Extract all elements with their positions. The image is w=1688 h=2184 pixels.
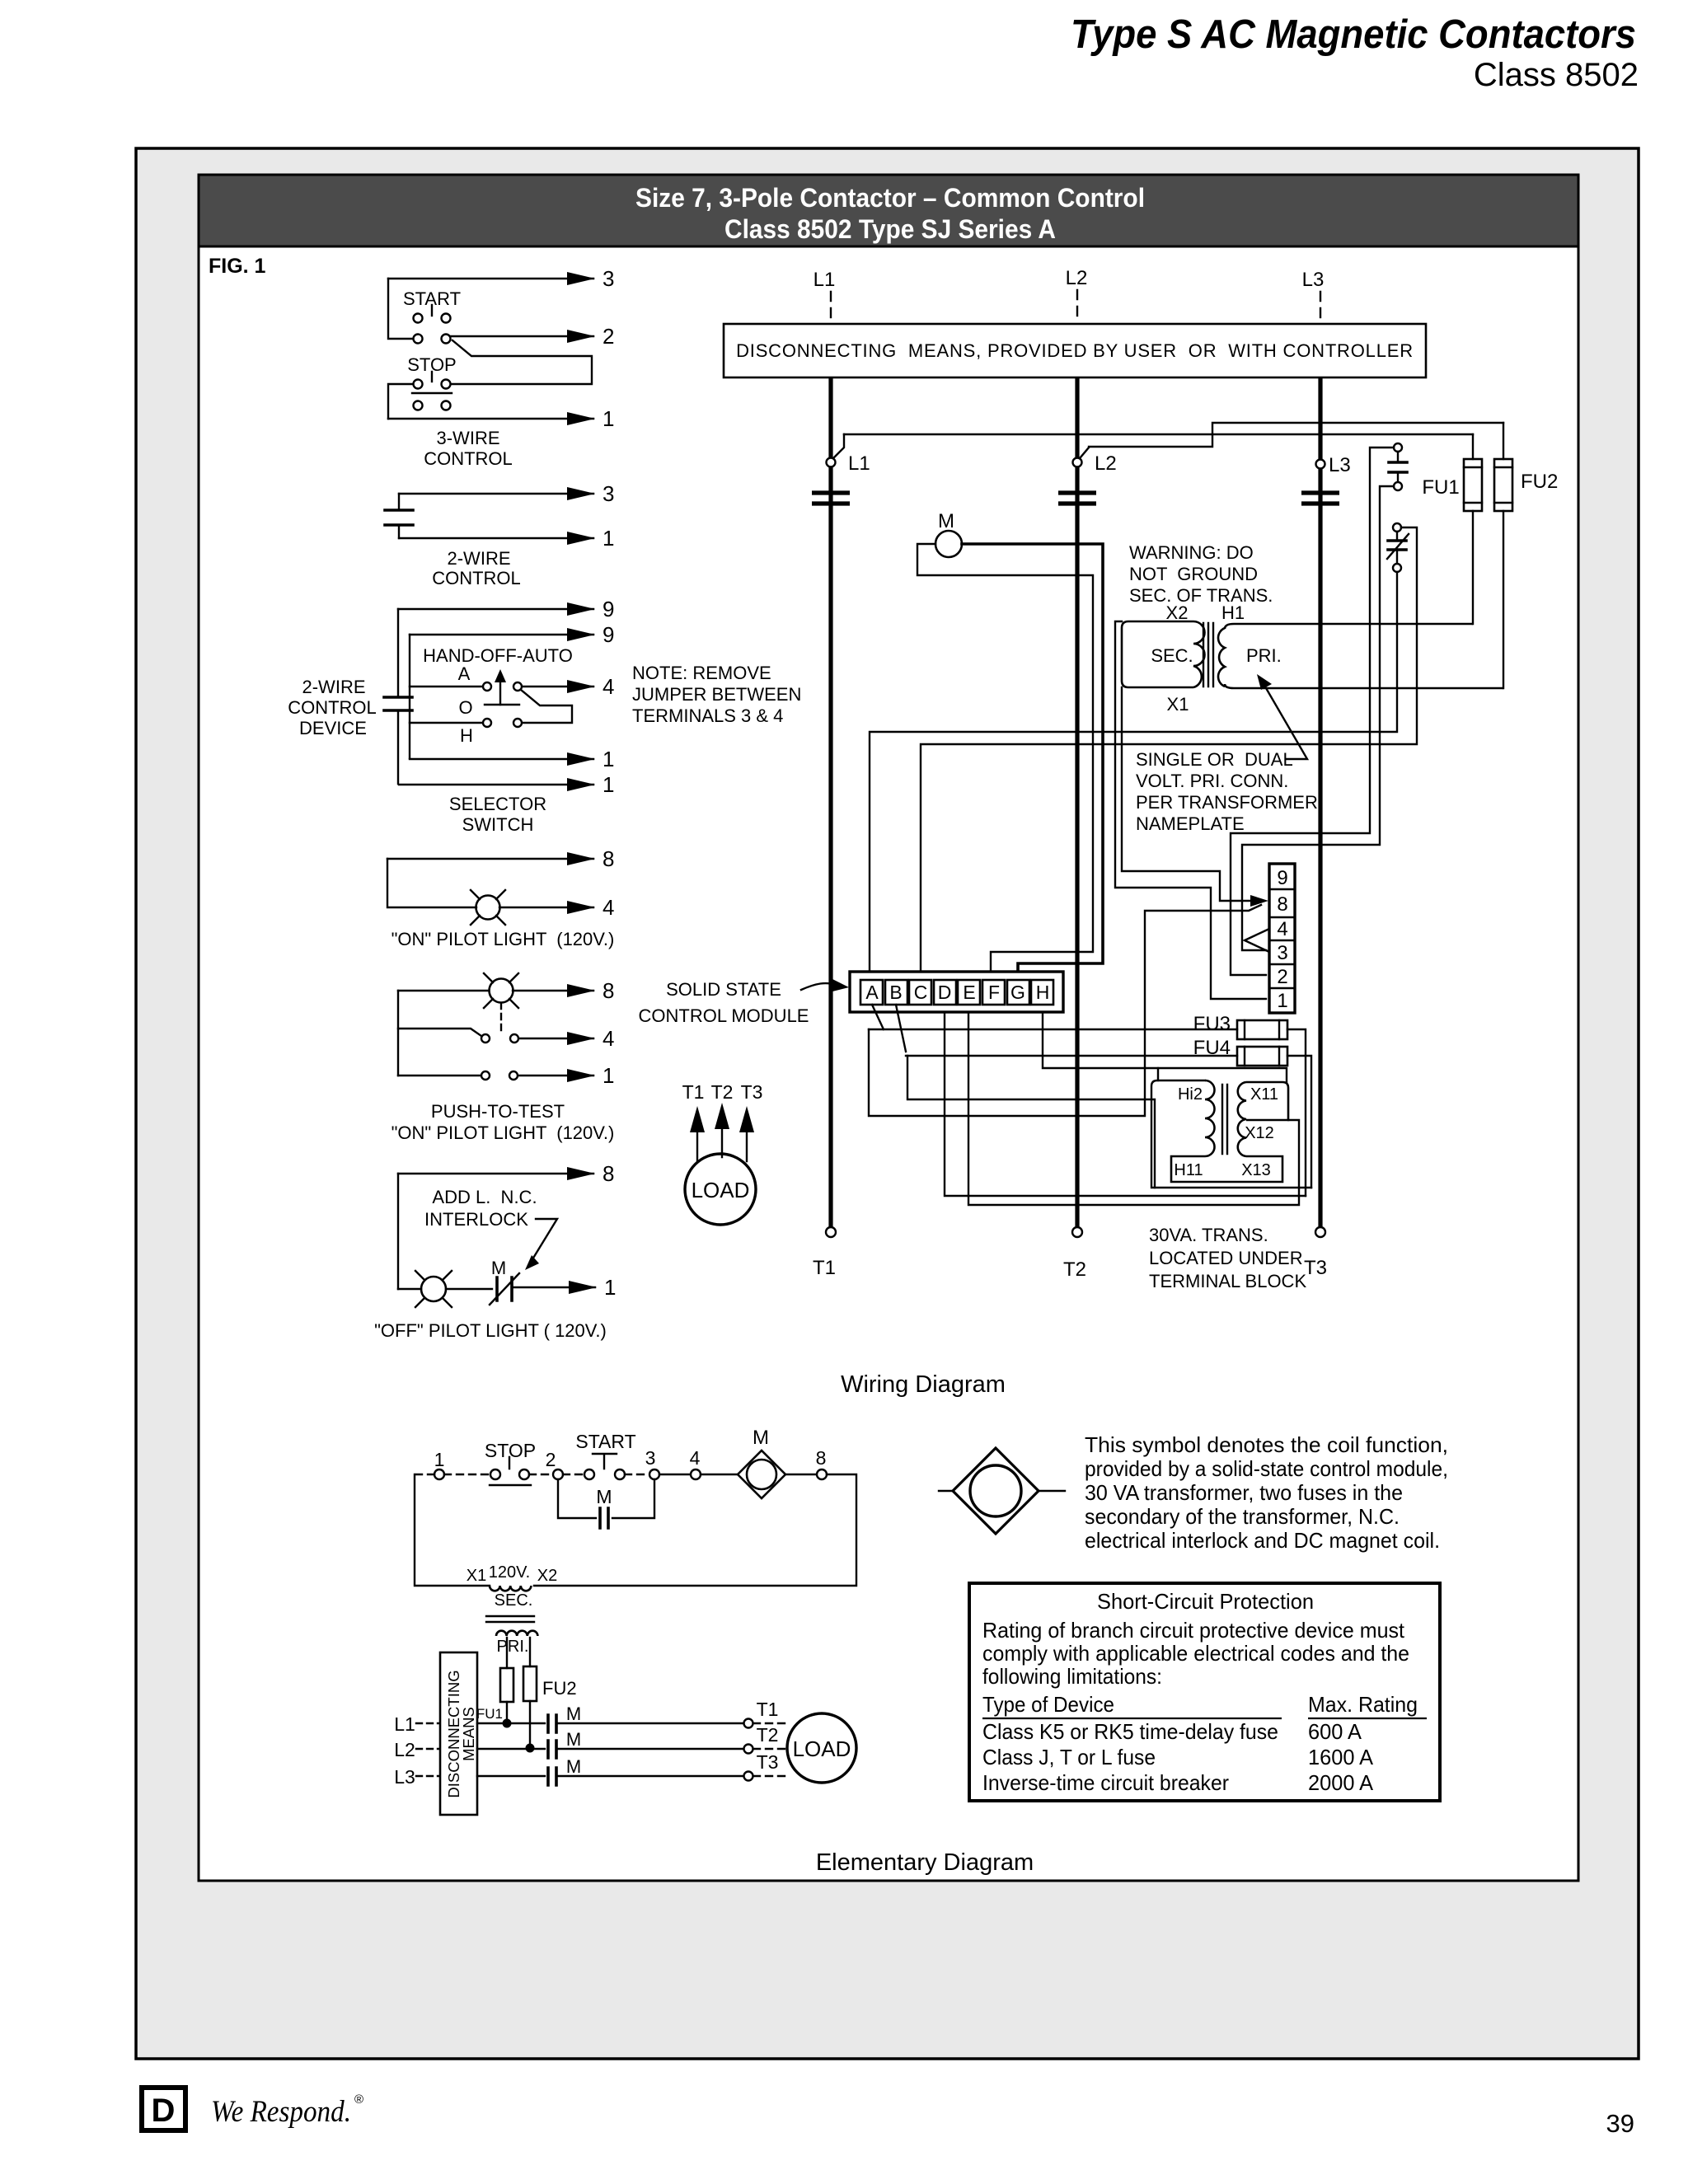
warning note text — [1129, 542, 1273, 606]
svg-text:L2: L2 — [1066, 267, 1088, 289]
svg-text:8: 8 — [1277, 893, 1287, 916]
inner white diagram box — [199, 175, 1578, 1881]
30VA transformer primary winding Hi2 — [1178, 1080, 1215, 1156]
svg-text:H: H — [1036, 982, 1050, 1003]
svg-text:D: D — [938, 982, 952, 1003]
svg-text:SELECTOR: SELECTOR — [449, 794, 546, 814]
svg-text:8: 8 — [603, 846, 614, 871]
elementary: L1 rail + M contact — [477, 1704, 786, 1732]
svg-text:Type of Device: Type of Device — [982, 1692, 1114, 1717]
caption 2-WIRE CONTROL — [432, 548, 521, 588]
wire aux NC top to module C — [921, 527, 1417, 970]
svg-text:secondary of the transformer,: secondary of the transformer, N.C. — [1085, 1504, 1400, 1529]
wire to terminal 8 (push-to-test line 8) — [513, 978, 614, 1003]
coil function symbol — [939, 1448, 1065, 1534]
svg-text:M: M — [596, 1486, 612, 1507]
caption 2-WIRE CONTROL DEVICE — [288, 677, 377, 738]
elementary: left rail — [415, 1474, 490, 1586]
svg-text:T2: T2 — [1063, 1258, 1086, 1281]
svg-text:SINGLE OR DUAL: SINGLE OR DUAL — [1136, 749, 1293, 770]
wire to terminal 3 (2-wire control line 3) — [399, 481, 614, 506]
svg-text:MEANS: MEANS — [460, 1707, 477, 1761]
terminal T2 — [1063, 1227, 1086, 1281]
svg-text:X12: X12 — [1245, 1124, 1274, 1142]
svg-text:A: A — [458, 663, 471, 684]
svg-text:PER TRANSFORMER: PER TRANSFORMER — [1136, 792, 1318, 813]
svg-text:H11: H11 — [1174, 1161, 1203, 1179]
wire aux NC bottom to module A — [870, 572, 1397, 970]
svg-text:START: START — [575, 1431, 635, 1452]
elementary: terminal 1 — [434, 1449, 445, 1479]
svg-text:T2: T2 — [757, 1724, 779, 1746]
svg-text:Class 8502 Type SJ Series A: Class 8502 Type SJ Series A — [724, 214, 1056, 244]
terminal block 9 8 4 3 2 1 — [1269, 864, 1295, 1013]
wire X1 to terminal 8 — [1122, 687, 1268, 907]
svg-text:Hi2: Hi2 — [1178, 1085, 1203, 1104]
caption 30VA TRANS — [1149, 1225, 1306, 1291]
elementary: M seal-in contact — [558, 1479, 654, 1528]
auxiliary N.C. interlock contact — [1387, 523, 1409, 572]
svg-text:VOLT. PRI. CONN.: VOLT. PRI. CONN. — [1136, 771, 1288, 791]
svg-text:E: E — [963, 982, 975, 1003]
caption SOLID STATE CONTROL MODULE + leader — [639, 979, 849, 1026]
svg-text:Inverse-time circuit breaker: Inverse-time circuit breaker — [982, 1770, 1229, 1795]
svg-text:M: M — [753, 1427, 769, 1449]
svg-text:electrical interlock and DC ma: electrical interlock and DC magnet coil. — [1085, 1528, 1440, 1553]
svg-text:G: G — [1010, 982, 1025, 1003]
wire module H to 30VA X11 — [1043, 1012, 1287, 1082]
node L3 incoming — [1302, 269, 1325, 322]
contact (2-wire control) — [385, 494, 413, 538]
svg-text:1: 1 — [603, 772, 614, 797]
caption OFF PILOT LIGHT — [374, 1320, 607, 1341]
elementary: node L3 — [394, 1766, 439, 1788]
svg-text:120V.: 120V. — [489, 1563, 530, 1582]
svg-text:FU1: FU1 — [1422, 476, 1459, 499]
terminal T1 — [813, 1227, 836, 1279]
svg-text:NAMEPLATE: NAMEPLATE — [1136, 813, 1245, 834]
svg-text:O: O — [458, 697, 472, 718]
control transformer SEC winding — [1122, 621, 1205, 687]
svg-text:CONTROL MODULE: CONTROL MODULE — [639, 1005, 809, 1026]
svg-text:SOLID STATE: SOLID STATE — [666, 979, 781, 1000]
elementary: LOAD — [787, 1713, 856, 1783]
svg-text:H: H — [460, 725, 473, 746]
elementary: STOP pushbutton — [444, 1440, 536, 1485]
wire to terminal 1 (2-wire control line 1) — [399, 526, 614, 551]
fuse FU4 — [1193, 1037, 1287, 1066]
svg-text:comply with applicable electri: comply with applicable electrical codes … — [982, 1641, 1409, 1666]
svg-text:2: 2 — [603, 324, 614, 349]
elementary: fuse FU1 — [476, 1638, 513, 1728]
Square D logo — [142, 2088, 185, 2130]
svg-text:L1: L1 — [814, 269, 836, 291]
svg-text:following limitations:: following limitations: — [982, 1664, 1162, 1689]
svg-text:Short-Circuit Protection: Short-Circuit Protection — [1097, 1589, 1314, 1614]
wire selector common vertical — [409, 635, 410, 758]
elementary: terminal 2 — [529, 1449, 563, 1479]
FIG. 1 label — [209, 255, 266, 278]
svg-text:X2: X2 — [537, 1567, 557, 1585]
svg-text:8: 8 — [603, 1161, 614, 1186]
page number — [1606, 2109, 1634, 2138]
wire selector A to H loop — [521, 690, 572, 723]
wire L2 blade to FU2 — [1089, 423, 1503, 447]
svg-text:CONTROL: CONTROL — [424, 448, 513, 469]
wire to terminal 1 (3-wire control line 1) — [388, 406, 614, 431]
svg-text:D: D — [152, 2093, 176, 2129]
elementary: PRI winding — [496, 1631, 537, 1656]
wire START branch vertical — [388, 279, 413, 339]
svg-text:L2: L2 — [394, 1739, 415, 1760]
label X2 — [1166, 602, 1189, 623]
svg-text:Elementary Diagram: Elementary Diagram — [816, 1849, 1034, 1876]
elementary: terminal 4 — [659, 1447, 701, 1479]
svg-text:Class K5 or RK5 time-delay fus: Class K5 or RK5 time-delay fuse — [982, 1719, 1278, 1744]
svg-text:JUMPER BETWEEN: JUMPER BETWEEN — [632, 684, 801, 705]
svg-text:4: 4 — [690, 1447, 701, 1469]
wire to terminal 4 (pilot line 4) — [499, 895, 614, 920]
elementary: L3 rail + M contact — [477, 1756, 785, 1785]
push-to-test lower contact — [398, 1071, 518, 1080]
svg-text:Type S AC Magnetic Contactors: Type S AC Magnetic Contactors — [1071, 12, 1636, 57]
svg-text:2000 A: 2000 A — [1308, 1770, 1374, 1795]
label X1 — [1167, 694, 1189, 715]
wire to terminal 4 (push-to-test line 4) — [519, 1026, 614, 1051]
svg-text:30VA. TRANS.: 30VA. TRANS. — [1149, 1225, 1268, 1245]
30VA transformer secondary winding — [1238, 1082, 1246, 1156]
svg-text:M: M — [566, 1756, 581, 1777]
caption 3-WIRE CONTROL — [424, 428, 513, 469]
elementary: L2 rail + M contact — [477, 1729, 786, 1758]
control transformer PRI winding — [1218, 624, 1503, 688]
wire X2 to terminal 1 — [1115, 621, 1266, 999]
wire FU1 to transformer PRI H1 — [1472, 511, 1474, 624]
elementary: right rail — [534, 1474, 856, 1586]
svg-text:1: 1 — [1277, 990, 1287, 1012]
elementary: fuse FU2 — [523, 1638, 577, 1753]
svg-text:M: M — [938, 510, 954, 532]
elementary: T labels — [757, 1699, 779, 1773]
svg-text:"ON" PILOT LIGHT (120V.): "ON" PILOT LIGHT (120V.) — [392, 929, 615, 949]
svg-text:ADD L. N.C.: ADD L. N.C. — [432, 1187, 537, 1207]
wire aux NO bottom to terminal 3 — [1242, 486, 1394, 950]
elementary: SEC winding — [490, 1586, 532, 1610]
wire module B node to 30VA box — [907, 1056, 1155, 1188]
svg-text:SWITCH: SWITCH — [462, 814, 534, 835]
svg-text:1: 1 — [603, 406, 614, 431]
30VA transformer core — [1222, 1085, 1227, 1154]
elementary: node L1 — [394, 1713, 439, 1735]
wire FU2 to transformer PRI X-end — [1503, 511, 1504, 688]
"ON" pilot light lamp — [471, 890, 505, 925]
wire module D rail — [945, 1012, 1306, 1196]
svg-text:L3: L3 — [1329, 454, 1351, 476]
svg-text:SEC.: SEC. — [495, 1591, 533, 1610]
svg-text:PRI.: PRI. — [497, 1638, 529, 1656]
svg-text:X13: X13 — [1241, 1161, 1271, 1179]
wire module A to FU3 — [869, 1005, 1237, 1029]
wire seal-in loop START to STOP — [452, 340, 592, 384]
selector switch contact H — [410, 719, 522, 746]
figure title bar — [199, 175, 1578, 246]
svg-text:3: 3 — [603, 266, 614, 291]
svg-text:FU1: FU1 — [476, 1706, 503, 1722]
solid state control module — [850, 972, 1063, 1012]
svg-text:PUSH-TO-TEST: PUSH-TO-TEST — [431, 1101, 565, 1122]
svg-text:L2: L2 — [1095, 452, 1117, 475]
svg-text:L1: L1 — [848, 452, 870, 475]
svg-text:"OFF" PILOT LIGHT ( 120V.): "OFF" PILOT LIGHT ( 120V.) — [374, 1320, 607, 1341]
node L1 incoming — [814, 269, 836, 322]
auxiliary N.O. contact — [1389, 443, 1407, 490]
30VA H11-X13 tap box — [1171, 1156, 1282, 1182]
disconnect switch L2 — [1073, 448, 1117, 475]
caption ADD L. N.C. INTERLOCK — [424, 1187, 537, 1230]
svg-text:1: 1 — [434, 1449, 445, 1470]
svg-text:3-WIRE: 3-WIRE — [437, 428, 500, 448]
fuse FU1 — [1422, 434, 1482, 511]
elementary: coil M (diamond) — [701, 1427, 817, 1498]
svg-text:F: F — [988, 982, 1000, 1003]
svg-text:A: A — [865, 982, 879, 1003]
svg-text:1: 1 — [603, 747, 614, 771]
svg-text:L1: L1 — [394, 1713, 415, 1735]
wire coil M right to module G — [962, 544, 1103, 970]
short-circuit protection box — [969, 1583, 1440, 1801]
svg-text:1600 A: 1600 A — [1308, 1745, 1374, 1769]
wire coil M left to module F — [917, 544, 1093, 970]
caption SELECTOR SWITCH — [449, 794, 546, 835]
svg-text:2-WIRE: 2-WIRE — [302, 677, 366, 697]
svg-text:39: 39 — [1606, 2109, 1634, 2138]
disconnecting means box — [724, 324, 1426, 377]
svg-text:TERMINALS 3 & 4: TERMINALS 3 & 4 — [632, 705, 783, 726]
elementary: transformer core — [486, 1616, 534, 1622]
30VA transformer outer box wire — [1151, 1080, 1311, 1188]
svg-text:X1: X1 — [1167, 694, 1189, 715]
wire to terminal 2 (3-wire control line 2) — [451, 324, 614, 349]
coil M — [935, 510, 962, 557]
svg-text:M: M — [566, 1729, 581, 1750]
svg-text:"ON" PILOT LIGHT (120V.): "ON" PILOT LIGHT (120V.) — [392, 1122, 615, 1143]
power line L1 — [828, 377, 832, 1227]
elementary: START pushbutton — [563, 1431, 636, 1479]
main contact M pole L2 — [1058, 493, 1096, 504]
svg-text:PRI.: PRI. — [1246, 645, 1282, 666]
fuse FU3 — [1193, 1013, 1287, 1039]
wire FU3 to 30VA transformer right — [1287, 1029, 1306, 1196]
wire L1 blade to FU1 — [844, 434, 1473, 435]
note remove jumper — [632, 663, 801, 726]
coil note text — [1085, 1432, 1448, 1553]
svg-text:TERMINAL BLOCK: TERMINAL BLOCK — [1149, 1271, 1306, 1291]
svg-text:9: 9 — [603, 622, 614, 647]
svg-text:8: 8 — [603, 978, 614, 1003]
svg-text:4: 4 — [603, 895, 614, 920]
single-or-dual note + leader — [1136, 674, 1318, 834]
svg-text:Wiring Diagram: Wiring Diagram — [841, 1371, 1006, 1398]
svg-text:T3: T3 — [757, 1751, 779, 1773]
elementary: disconnecting means box — [440, 1652, 477, 1815]
svg-text:3: 3 — [1277, 942, 1287, 964]
We Respond wordmark — [211, 2093, 363, 2129]
svg-text:T1: T1 — [682, 1081, 705, 1103]
svg-text:2: 2 — [1277, 966, 1287, 988]
push-to-test NO contact — [398, 1003, 518, 1043]
svg-text:1: 1 — [603, 526, 614, 551]
power line L3 — [1318, 377, 1322, 1227]
svg-text:8: 8 — [816, 1447, 827, 1469]
svg-text:600 A: 600 A — [1308, 1719, 1362, 1744]
svg-text:4: 4 — [1277, 918, 1287, 940]
jumper terminals 3-4 — [1245, 929, 1269, 952]
elementary: transformer labels — [467, 1563, 557, 1585]
svg-text:INTERLOCK: INTERLOCK — [424, 1209, 528, 1230]
svg-text:FU2: FU2 — [1521, 471, 1558, 493]
disconnect switch L1 — [827, 434, 870, 475]
svg-text:WARNING: DO: WARNING: DO — [1129, 542, 1254, 563]
wire module B to FU4 — [896, 1005, 1237, 1056]
svg-text:M: M — [566, 1704, 581, 1724]
svg-text:LOAD: LOAD — [793, 1736, 851, 1761]
svg-text:HAND-OFF-AUTO: HAND-OFF-AUTO — [423, 645, 573, 666]
main contact M pole L1 — [812, 493, 850, 504]
terminal T3 — [1304, 1227, 1327, 1279]
wire to terminal 9 (selector line 9 lower) — [410, 622, 614, 647]
svg-text:FU4: FU4 — [1193, 1037, 1231, 1059]
wire pilot light branch — [387, 859, 476, 907]
svg-text:2: 2 — [546, 1449, 556, 1470]
svg-text:3: 3 — [645, 1447, 656, 1469]
outer gray page panel — [136, 148, 1639, 2059]
svg-text:9: 9 — [603, 597, 614, 621]
disconnect switch L3 — [1316, 454, 1351, 476]
svg-text:Size 7, 3-Pole Contactor – Com: Size 7, 3-Pole Contactor – Common Contro… — [635, 183, 1145, 213]
wire to terminal 3 (3-wire control line 3) — [388, 266, 614, 291]
svg-text:SEC. OF TRANS.: SEC. OF TRANS. — [1129, 585, 1273, 606]
svg-text:X1: X1 — [467, 1567, 486, 1585]
elementary: node L2 — [394, 1739, 439, 1760]
svg-text:T1: T1 — [813, 1257, 836, 1279]
START pushbutton (3-wire control) — [403, 288, 461, 344]
svg-text:1: 1 — [604, 1275, 616, 1300]
svg-text:3: 3 — [603, 481, 614, 506]
svg-text:LOCATED UNDER: LOCATED UNDER — [1149, 1248, 1303, 1268]
svg-text:L3: L3 — [394, 1766, 415, 1788]
wire to terminal 1 (selector line 1 upper) — [410, 747, 614, 771]
svg-text:1: 1 — [603, 1063, 614, 1088]
svg-text:T1: T1 — [757, 1699, 779, 1720]
svg-text:C: C — [914, 982, 928, 1003]
svg-text:4: 4 — [603, 674, 614, 699]
elementary: terminal 8 — [816, 1447, 827, 1479]
svg-text:T3: T3 — [741, 1081, 763, 1103]
svg-text:9: 9 — [1277, 867, 1287, 889]
svg-text:®: ® — [354, 2093, 363, 2107]
wire to terminal 9 (selector line 9 upper) — [398, 597, 614, 621]
svg-text:2-WIRE: 2-WIRE — [448, 548, 511, 569]
"OFF" pilot light lamp — [398, 1271, 492, 1307]
selector position arrow — [495, 669, 506, 705]
fuse FU2 — [1494, 423, 1558, 511]
wire to terminal 1 (push-to-test line 1) — [518, 1063, 614, 1088]
svg-text:4: 4 — [603, 1026, 614, 1051]
svg-text:FU3: FU3 — [1193, 1013, 1231, 1035]
svg-text:We Respond.: We Respond. — [211, 2095, 351, 2129]
svg-text:X11: X11 — [1250, 1085, 1278, 1104]
load circle with T1 T2 T3 arrows — [682, 1081, 763, 1225]
wire FU4 to 30VA transformer box — [1287, 1056, 1311, 1188]
svg-text:CONTROL: CONTROL — [288, 697, 377, 718]
wire aux NO top to terminal 2 — [1231, 448, 1394, 975]
wire STOP to line 1 — [388, 384, 413, 419]
caption PUSH-TO-TEST — [392, 1101, 615, 1143]
svg-text:L3: L3 — [1302, 269, 1325, 291]
svg-text:X2: X2 — [1166, 602, 1189, 623]
svg-text:Rating of branch circuit prote: Rating of branch circuit protective devi… — [982, 1618, 1405, 1643]
wire module A node to terminal 8 — [869, 905, 1261, 1116]
svg-text:This symbol denotes the coil f: This symbol denotes the coil function, — [1085, 1432, 1448, 1457]
30VA X11 tap box — [1246, 1082, 1288, 1120]
page header title — [1071, 12, 1639, 93]
main contact M pole L3 — [1301, 493, 1339, 504]
svg-text:SEC.: SEC. — [1151, 645, 1193, 666]
wire to terminal 4 (selector line 4) — [523, 674, 614, 699]
wire off-pilot left vertical — [397, 1174, 399, 1289]
svg-text:LOAD: LOAD — [692, 1178, 750, 1202]
svg-text:M: M — [491, 1258, 506, 1278]
label X12 — [1245, 1124, 1274, 1142]
N.C. interlock contact M — [490, 1258, 519, 1305]
svg-text:DEVICE: DEVICE — [299, 718, 367, 738]
wire to terminal 8 (pilot line 8) — [387, 846, 614, 871]
svg-text:H1: H1 — [1221, 602, 1245, 623]
contact (2-wire control device) — [384, 609, 412, 784]
svg-text:NOTE: REMOVE: NOTE: REMOVE — [632, 663, 771, 683]
svg-text:provided by a solid-state cont: provided by a solid-state control module… — [1085, 1456, 1448, 1481]
svg-text:T3: T3 — [1304, 1257, 1327, 1279]
svg-text:Max. Rating: Max. Rating — [1308, 1692, 1418, 1717]
svg-text:Class 8502: Class 8502 — [1474, 57, 1639, 93]
wire module E rail — [968, 1012, 1299, 1205]
wire to terminal 8 (off-pilot line 8) — [398, 1161, 614, 1186]
caption ON PILOT LIGHT — [392, 929, 615, 949]
selector switch contact O — [458, 697, 519, 718]
push-to-test pilot lamp — [398, 973, 518, 1008]
power line L2 — [1075, 377, 1079, 1227]
wire to terminal 1 (off-pilot line 1) — [512, 1275, 616, 1300]
elementary: terminal 3 — [625, 1447, 659, 1479]
leader arrow to M interlock — [525, 1219, 557, 1270]
selector switch contact A — [410, 663, 522, 691]
svg-text:30 VA transformer, two fuses i: 30 VA transformer, two fuses in the — [1085, 1480, 1403, 1505]
caption HAND-OFF-AUTO — [423, 645, 573, 666]
svg-text:FU2: FU2 — [542, 1678, 577, 1699]
svg-text:FIG. 1: FIG. 1 — [209, 255, 266, 278]
svg-text:T2: T2 — [711, 1081, 734, 1103]
svg-text:B: B — [889, 982, 902, 1003]
svg-text:Class J, T or L fuse: Class J, T or L fuse — [982, 1745, 1156, 1769]
node L2 incoming — [1066, 267, 1088, 322]
STOP pushbutton (3-wire control) — [407, 354, 457, 410]
wire push-to-test left vertical — [397, 991, 399, 1076]
svg-text:NOT GROUND: NOT GROUND — [1129, 564, 1258, 584]
caption Wiring Diagram — [841, 1371, 1006, 1398]
svg-text:CONTROL: CONTROL — [432, 568, 521, 588]
transformer core — [1203, 623, 1213, 687]
wire to terminal 1 (selector line 1 lower) — [399, 772, 614, 797]
